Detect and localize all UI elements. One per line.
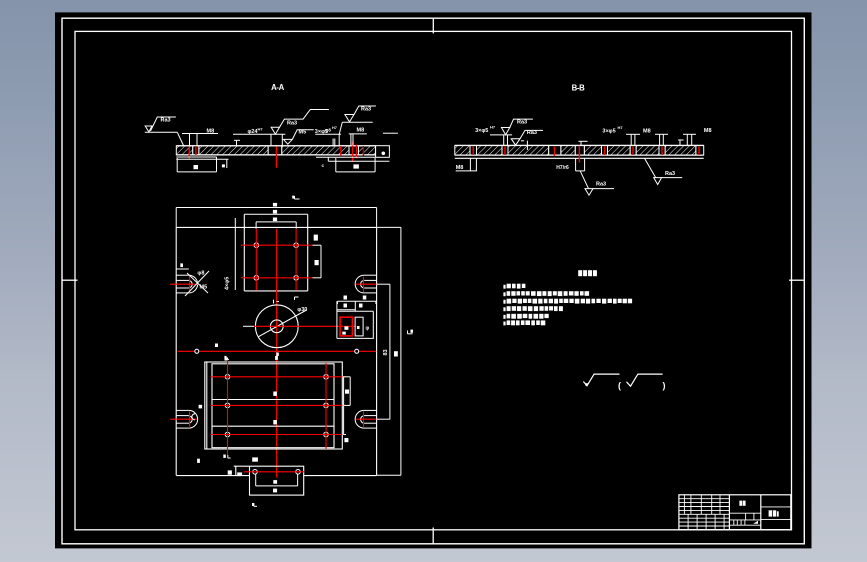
- middle row3 small cells: [733, 520, 735, 525]
- middle section rows: [729, 512, 760, 514]
- section mark B bottom: [254, 503, 257, 506]
- upper-left slot red lines: [170, 276, 198, 293]
- left dim extension vertical: [234, 218, 236, 290]
- left grid lower rows: [679, 517, 730, 519]
- A-A small extension pair right-mid: [333, 139, 335, 146]
- B-B small L-tick right: [678, 140, 684, 145]
- protrusion red line: [244, 471, 304, 473]
- A-A left dim box: [177, 158, 227, 172]
- A-A left dim text: [194, 165, 199, 169]
- circle centerline horizontal: [243, 325, 254, 327]
- A-A right end box: [376, 146, 390, 158]
- middle row2 dividers: [745, 513, 747, 520]
- svg-text:M8: M8: [704, 128, 712, 134]
- plate outline: [176, 227, 376, 475]
- A-A red hole centerlines: [189, 142, 363, 168]
- svg-text:Ra3: Ra3: [596, 182, 606, 188]
- B-B bushing roughness leader: [580, 171, 614, 195]
- B-B bar top/bottom lines: [455, 145, 704, 158]
- drawing name text: [739, 501, 742, 506]
- B-B extension pair: [655, 134, 668, 145]
- svg-text:3×φ5: 3×φ5: [475, 128, 488, 134]
- small flag mark: [753, 521, 758, 524]
- right section rows: [761, 506, 791, 508]
- svg-text:B-B: B-B: [572, 84, 585, 93]
- center tick left: [62, 279, 78, 281]
- left grid upper columns: [683, 495, 685, 514]
- keyway detail block: [337, 301, 376, 338]
- upper-left slot X cross: [185, 271, 209, 296]
- protrusion dim lines: [256, 474, 298, 486]
- right dim connectors: [377, 227, 401, 475]
- B-B small L-tick mid: [578, 141, 587, 145]
- svg-text:A-A: A-A: [271, 83, 284, 92]
- svg-text:Ra3: Ra3: [287, 120, 297, 126]
- svg-text:φ30: φ30: [297, 307, 307, 313]
- bottom area labels: [223, 455, 226, 458]
- left grid upper rows: [679, 498, 730, 500]
- B-B M8 dim mid: [626, 134, 640, 145]
- A-A horizontal segment right of texts: [315, 133, 341, 135]
- inner frame: [75, 31, 792, 529]
- left grid lower columns: [687, 514, 689, 530]
- A-A small tick mid-left: [234, 140, 240, 145]
- B-B countersink triangle with stems: [490, 119, 533, 145]
- svg-text:83: 83: [383, 349, 389, 355]
- bottom pocket right dim chain: [342, 377, 350, 435]
- top overall dim line: [176, 208, 376, 228]
- svg-text:M8: M8: [643, 128, 651, 134]
- svg-text:H7: H7: [618, 125, 624, 130]
- svg-text:(: (: [618, 381, 621, 391]
- svg-text:M8: M8: [207, 129, 215, 135]
- center tick top: [432, 18, 434, 33]
- svg-text:Ra3: Ra3: [527, 130, 537, 136]
- B-B left below dim: [456, 158, 477, 171]
- bottom pocket center labels: [273, 392, 277, 396]
- lower-right slot: [355, 410, 376, 428]
- keyway red rect: [340, 317, 352, 336]
- A-A bar hatched body: [176, 146, 375, 155]
- svg-text:M8: M8: [357, 128, 365, 134]
- central circle: [255, 305, 306, 348]
- svg-text:): ): [663, 381, 666, 391]
- svg-text:M5: M5: [299, 129, 307, 135]
- pocket inner dim line: [256, 222, 296, 229]
- svg-text:3×φ5: 3×φ5: [602, 129, 615, 135]
- svg-text:H7/r6: H7/r6: [556, 165, 569, 171]
- title block main dividers: [728, 495, 730, 530]
- technical notes title: [578, 270, 582, 276]
- roughness symbol 1: [583, 374, 619, 386]
- pocket outer dim line: [244, 213, 307, 215]
- keyway texts: [344, 326, 348, 330]
- svg-text:H7: H7: [258, 127, 264, 132]
- centerline node circles: [195, 349, 359, 353]
- pocket red centerlines: [241, 229, 313, 291]
- upper-right slot: [355, 275, 376, 293]
- bottom protrusion box: [234, 466, 304, 495]
- main horizontal red centerline: [178, 350, 377, 352]
- pocket right dim hook: [313, 245, 322, 278]
- center red vertical: [276, 229, 278, 478]
- svg-text:φ: φ: [366, 326, 370, 332]
- A-A right dim text: [353, 164, 359, 168]
- A-A second triangle leader: [283, 130, 313, 144]
- A-A M8 dim left: [182, 134, 218, 146]
- section A marks near circle: [274, 297, 299, 304]
- center tick bottom: [432, 528, 434, 544]
- slot labels: [180, 263, 183, 267]
- upper-left slot: [176, 269, 197, 293]
- A-A center countersink triangle with stems: [271, 110, 329, 146]
- A-A far right short line: [383, 132, 398, 134]
- A-A left roughness mark: [145, 117, 184, 146]
- A-A bar top/bottom lines: [176, 146, 375, 155]
- bottom pocket top label: [226, 356, 230, 359]
- B-B bushing box below: [576, 158, 585, 171]
- section mark B top: [295, 196, 300, 199]
- svg-text:M8: M8: [456, 165, 464, 171]
- svg-text:H7: H7: [332, 126, 337, 130]
- B-B second triangle leader: [511, 130, 543, 150]
- technical notes body: [503, 285, 505, 289]
- bottom pocket rectangles: [205, 362, 342, 449]
- top pocket rectangle: [244, 214, 307, 291]
- sheet info text: [769, 510, 772, 516]
- keyway white rect: [355, 317, 363, 336]
- upper-right slot red lines: [356, 277, 376, 293]
- B-B mid roughness leader below: [645, 158, 683, 184]
- B-B red hole centerlines: [473, 146, 699, 163]
- pocket hole circles: [254, 243, 298, 280]
- svg-text:Ra3: Ra3: [161, 118, 171, 124]
- title block outer border: [679, 495, 791, 530]
- A-A M8 dim right: [339, 134, 367, 146]
- bottom pocket circles: [225, 375, 328, 437]
- svg-text:M5: M5: [200, 285, 208, 291]
- A-A line under phi24H7: [233, 133, 285, 135]
- A-A lines below bar: [176, 157, 389, 161]
- center tick right: [789, 279, 804, 281]
- svg-text:Ra3: Ra3: [665, 171, 675, 177]
- svg-text:Ra3: Ra3: [361, 107, 371, 113]
- bottom pocket red lines: [211, 359, 346, 455]
- left margin labels: [199, 405, 203, 409]
- svg-text:φ8: φ8: [197, 271, 204, 277]
- lower-left slot: [176, 410, 197, 428]
- hole gap segments: [193, 146, 199, 155]
- protrusion circles: [253, 470, 301, 475]
- lower-left slot red lines: [170, 411, 197, 428]
- lower-right slot red lines: [356, 411, 376, 428]
- svg-text:4×φ5: 4×φ5: [225, 277, 231, 290]
- svg-text:Ra3: Ra3: [517, 119, 527, 125]
- svg-text:φ8: φ8: [325, 127, 331, 132]
- svg-text:H7: H7: [490, 125, 496, 130]
- centerline small labels: [215, 344, 218, 348]
- B-B M8 dim right: [683, 134, 696, 145]
- A-A right tall roughness leader: [339, 106, 376, 134]
- hole gap segments: [470, 146, 477, 155]
- A-A right dim box: [336, 158, 375, 172]
- B-B bar hatched body: [455, 146, 704, 155]
